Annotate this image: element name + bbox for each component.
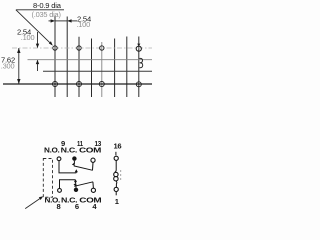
wire pole 2 N.C. stem — [75, 184, 77, 188]
pole 2 N.O. fixed contact arrow — [75, 180, 77, 182]
dimension 2.54/.100 vertical (left, between grid rows) — [37, 32, 39, 71]
hole H3 (top row) — [100, 46, 104, 50]
wire pole 1 N.C. stem — [73, 161, 75, 165]
dimension 2.54/.100 horizontal (top, between grid columns) — [49, 20, 78, 22]
coil terminal pin 16 — [114, 156, 118, 160]
hole H2 (top row) — [77, 46, 81, 50]
wire coil to pin 1 — [115, 181, 118, 187]
dimension 7.62/.300 vertical (between hole rows) — [18, 48, 20, 84]
pin 1 lead tick — [115, 192, 117, 196]
pole 2 N.C. terminal (pin 6), solid — [74, 188, 78, 192]
svg-text:16: 16 — [114, 141, 122, 150]
svg-text:COM: COM — [79, 145, 101, 154]
squiggle mark beside column at hole H4 — [139, 58, 142, 67]
wire pole 2 COM stem — [92, 182, 95, 188]
svg-text:(.035 dia): (.035 dia) — [32, 10, 61, 19]
PCB grid vertical lines — [55, 17, 139, 98]
svg-text:.100: .100 — [21, 33, 35, 42]
wire pole 2 N.O. up and right — [60, 180, 76, 189]
svg-text:8-0.9 dia: 8-0.9 dia — [33, 1, 62, 10]
pole 1 COM terminal (pin 13) — [91, 158, 95, 162]
dashed mechanical linkage box — [43, 159, 52, 198]
coil K1 — [114, 172, 118, 176]
hole H7 (bottom row) — [99, 81, 104, 86]
small arrow mark on column above hole H4 — [137, 44, 140, 47]
svg-text:.100: .100 — [76, 20, 90, 29]
wire pole 1 COM stem — [92, 162, 95, 170]
pole 2 movable blade — [74, 182, 93, 187]
hole H6 (bottom row) — [76, 81, 81, 86]
hole H5 (bottom row) — [52, 81, 57, 86]
hole H1 (top row) — [53, 46, 57, 50]
hole callout underline bar — [16, 9, 64, 11]
hole H8 (bottom row) — [136, 82, 141, 87]
svg-text:6: 6 — [75, 202, 79, 211]
pin 16 lead tick — [115, 152, 117, 156]
pole 2 COM terminal (pin 4) — [91, 188, 95, 192]
pole 1 movable blade — [74, 166, 93, 170]
stray dashed mark right of coil — [120, 170, 122, 181]
svg-text:N.C.: N.C. — [61, 145, 78, 154]
leader line from dia callout to hole H1 — [16, 10, 52, 45]
wire pin 16 to coil — [115, 161, 116, 173]
PCB grid horizontal row lines — [3, 48, 152, 84]
coil terminal pin 1 — [114, 187, 118, 191]
leader arrow to linkage box — [25, 197, 42, 208]
svg-text:.300: .300 — [1, 62, 15, 71]
pole 1 N.O. terminal (pin 9) — [57, 157, 61, 161]
svg-text:N.O.: N.O. — [44, 145, 60, 154]
wire pole 1 N.O. down and right — [59, 161, 76, 173]
hole H4 (top row) — [136, 46, 141, 51]
pole 1 N.C. terminal (pin 11), solid — [72, 156, 76, 160]
pole 1 N.O. fixed contact arrow — [75, 171, 77, 173]
svg-text:COM: COM — [79, 195, 101, 204]
pole 2 N.O. terminal (pin 8) — [58, 189, 62, 193]
svg-text:8: 8 — [57, 202, 61, 211]
